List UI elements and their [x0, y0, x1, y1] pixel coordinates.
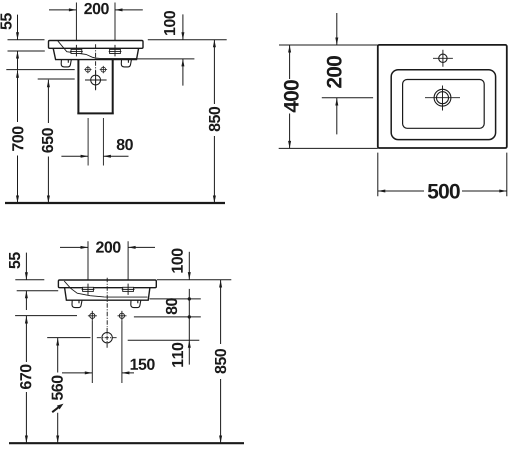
- siphon direction leader arrow: [52, 404, 63, 413]
- dim 150 view C label: [131, 359, 155, 370]
- fixing bolt left (view C): [88, 311, 97, 321]
- tap hole left: [70, 45, 83, 57]
- tap hole (plan): [433, 50, 453, 67]
- dim 700 view A dimension line: [16, 70, 19, 203]
- dim 560 view C label: [52, 376, 63, 401]
- dim 670 view C label: [20, 365, 31, 389]
- bolt reference line right view C: [134, 316, 201, 318]
- dim 55 view A label: [0, 13, 11, 29]
- dim 500 extension lines: [378, 153, 507, 197]
- dim 650 view A dimension line: [47, 80, 50, 203]
- fixing hole left on pedestal: [84, 66, 91, 73]
- dim 100 view C label: [172, 249, 183, 273]
- mounting lug left: [61, 60, 71, 67]
- dim 150 extension lines below bolts: [92, 321, 122, 383]
- drain center reference line plan: [322, 97, 373, 99]
- tap hole left (view C): [82, 284, 95, 295]
- drain outlet (view C): [97, 328, 118, 348]
- dim 560 reference line view C: [47, 337, 90, 339]
- dim 55 view C arrows: [25, 253, 28, 310]
- drain reference line view C: [128, 339, 200, 341]
- dim 400 label: [284, 80, 299, 112]
- top reference line right view C: [157, 279, 231, 281]
- dim 150 view C arrows: [62, 371, 134, 374]
- washbasin rim (front view): [49, 41, 144, 49]
- dim 650 view A reference line: [38, 78, 75, 80]
- dim 400 dimension line: [288, 45, 291, 148]
- dim 850 view A dimension line: [213, 40, 216, 203]
- tap hole right (view C): [122, 284, 135, 295]
- dim 850 view C reference: [219, 280, 222, 443]
- dim 200 view A label: [84, 3, 108, 14]
- dim 500 dimension line: [378, 190, 507, 193]
- dim 400 extension lines: [279, 45, 378, 148]
- dim 100 view C arrow: [188, 252, 191, 280]
- dim 200 plan arrows: [335, 13, 338, 134]
- inner rim edge (plan): [391, 70, 495, 140]
- dim 850 view C label: [215, 349, 226, 374]
- mounting lug right (view C): [131, 300, 141, 307]
- mounting lug left (view C): [72, 300, 82, 307]
- basin body (front view): [53, 48, 138, 59]
- centerline view C: [106, 278, 108, 327]
- dim 80 view A label: [117, 139, 133, 150]
- outer rim rectangle (plan): [378, 45, 507, 148]
- dim 55 view C label: [9, 252, 20, 268]
- dim 670 dimension line view C: [25, 316, 28, 443]
- dim 560 dimension line view C: [56, 338, 59, 443]
- dim 100 view A label: [164, 11, 175, 35]
- dim 700 view A reference line: [6, 69, 74, 71]
- basin body (view C): [65, 288, 150, 301]
- dim 55 view A arrows: [16, 15, 19, 70]
- dim 200 view C dimension line and arrows: [60, 246, 155, 249]
- siphon cover / pedestal: [77, 60, 114, 114]
- dim 200 view A extension lines: [76, 3, 115, 41]
- dim 700 view A label: [12, 127, 23, 151]
- basin interior contour (view C): [64, 281, 147, 297]
- top reference line right view A: [148, 39, 227, 41]
- dim 100 view A arrows: [181, 14, 184, 85]
- dim 850 view A label: [209, 107, 220, 132]
- dim 200 view C label: [96, 241, 120, 252]
- dim 80/110 shared line with dots view C: [188, 289, 191, 365]
- dim 500 label: [428, 184, 460, 199]
- centerline view A: [95, 44, 97, 90]
- basin bottom reference line right view A: [137, 58, 194, 60]
- waste pipe lines: [88, 118, 103, 166]
- basin interior section contour: [58, 41, 136, 59]
- dim 80 view C label: [166, 298, 177, 314]
- basin bottom (plan): [403, 80, 485, 129]
- tap hole right: [109, 45, 122, 57]
- dim 110 view C label: [172, 343, 183, 367]
- dim 200 view A dimension line and arrows: [49, 8, 143, 11]
- floor line view C: [9, 442, 244, 444]
- fixing hole right on pedestal: [100, 66, 107, 73]
- floor line view A: [5, 202, 225, 204]
- dim 55 view A reference lines: [8, 40, 45, 51]
- fixing bolt right (view C): [118, 311, 127, 321]
- basin bottom reference line right view C: [150, 298, 201, 300]
- drain (plan): [425, 86, 460, 111]
- dim 650 view A label: [42, 128, 53, 152]
- dim 670 reference line view C: [15, 315, 77, 317]
- washbasin rim (view C): [58, 280, 156, 288]
- dim 200 view C extension lines: [88, 241, 128, 279]
- mounting lug right: [121, 60, 131, 67]
- dim 55 view C reference lines: [15, 280, 58, 291]
- dim 80 view A arrows: [61, 155, 128, 158]
- siphon outlet circle: [85, 71, 107, 90]
- dim 200 plan label: [327, 56, 342, 88]
